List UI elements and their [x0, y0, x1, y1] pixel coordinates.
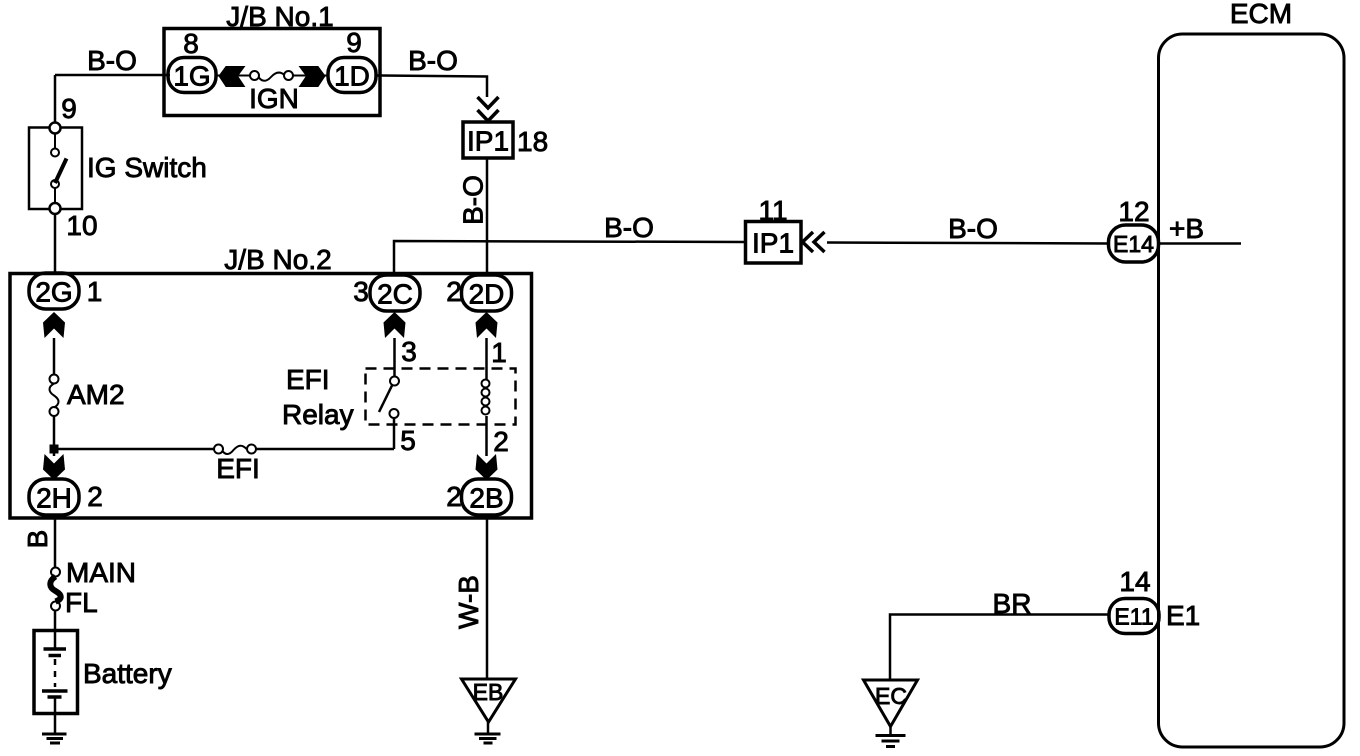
svg-text:E11: E11 [1114, 604, 1153, 630]
wire MAIN FL to battery [54, 611, 57, 650]
svg-text:+B: +B [1169, 213, 1204, 244]
wire IG switch to J/B No.2 [54, 214, 57, 273]
svg-text:B: B [22, 530, 53, 549]
arrow up under 2G [43, 312, 65, 338]
fuse IGN left arrow [219, 67, 245, 87]
wire 1D to IP1 corner [376, 76, 487, 98]
relay coil [482, 380, 490, 388]
wire AM2 to junction to 2H arrow [53, 416, 56, 456]
svg-text:14: 14 [1119, 566, 1150, 597]
svg-text:10: 10 [66, 210, 97, 241]
svg-text:W-B: W-B [453, 575, 484, 629]
arrow up under 2C [384, 312, 406, 338]
IG switch bottom terminal [50, 203, 61, 214]
svg-text:E14: E14 [1113, 231, 1154, 257]
svg-text:12: 12 [1118, 196, 1149, 227]
svg-text:EC: EC [875, 683, 907, 709]
connector 2C pin 3 [370, 275, 420, 311]
svg-text:2B: 2B [469, 483, 503, 514]
svg-text:8: 8 [183, 28, 199, 59]
fusible link MAIN FL [51, 568, 60, 577]
ground under battery [42, 733, 67, 736]
svg-text:3: 3 [353, 276, 369, 307]
wire IP1 down to 2D [486, 158, 489, 275]
svg-text:2: 2 [446, 276, 462, 307]
relay switch contact bottom [390, 409, 399, 418]
connector 2B pin 2 [462, 479, 512, 515]
svg-text:1G: 1G [173, 61, 210, 92]
wire B-O from IG switch to 1G [55, 74, 170, 77]
junction dot [50, 445, 58, 453]
svg-text:2D: 2D [469, 279, 505, 310]
relay switch blade [379, 386, 392, 413]
svg-text:1: 1 [87, 276, 103, 307]
IG switch blade [55, 159, 67, 184]
EFI relay dashed box [366, 369, 516, 425]
connector IP1 pin 11 [746, 222, 802, 264]
svg-text:9: 9 [61, 93, 77, 124]
svg-text:B-O: B-O [604, 212, 654, 243]
svg-text:IP1: IP1 [752, 228, 794, 259]
svg-text:Relay: Relay [282, 399, 354, 430]
wire 2B down to EB [486, 515, 489, 679]
svg-text:3: 3 [401, 336, 417, 367]
fuse AM2 [50, 375, 59, 384]
connector 1D pin 9 [328, 58, 376, 93]
svg-text:EFI: EFI [286, 364, 330, 395]
svg-text:2G: 2G [35, 277, 72, 308]
svg-text:B-O: B-O [948, 213, 998, 244]
svg-text:2: 2 [87, 481, 103, 512]
svg-text:J/B No.2: J/B No.2 [224, 244, 331, 275]
connector 2D pin 2 [462, 275, 512, 311]
battery box [34, 631, 78, 714]
svg-text:ECM: ECM [1230, 0, 1292, 29]
junction block J/B No.1 box [164, 29, 380, 116]
arrow up under 2D [476, 312, 498, 338]
IG switch internal wire [54, 134, 56, 149]
svg-text:1: 1 [491, 337, 507, 368]
IG switch internal wire 2 [54, 188, 56, 203]
ground triangle EC [864, 680, 918, 727]
connector 1G pin 8 [168, 58, 216, 93]
arrow down above 2H [43, 454, 65, 480]
wire main B-O line to IP1-11 [394, 241, 745, 275]
chevron arrow into IP1-11 [803, 232, 814, 252]
svg-text:Battery: Battery [83, 658, 172, 689]
relay switch contact top [390, 377, 399, 386]
battery plates [44, 647, 67, 651]
wire IG switch to top [54, 75, 57, 128]
svg-text:EB: EB [473, 679, 504, 705]
svg-text:BR: BR [993, 588, 1032, 619]
svg-text:B-O: B-O [458, 175, 489, 225]
junction block J/B No.2 box [10, 274, 532, 519]
connector E11 pin 14 [1109, 599, 1159, 634]
svg-text:FL: FL [65, 587, 98, 618]
IG switch top terminal [50, 123, 61, 134]
wire up to relay switch [393, 418, 396, 449]
wire coil to 2B arrow [485, 416, 488, 456]
fuse IGN right arrow [300, 67, 326, 87]
wire battery to ground [54, 697, 57, 733]
svg-text:5: 5 [400, 425, 416, 456]
svg-text:B-O: B-O [408, 45, 458, 76]
wire 2D arrow to coil [485, 338, 488, 380]
wire EC to E11 [890, 615, 1109, 681]
svg-text:2H: 2H [36, 483, 72, 514]
IG switch contact bottom [51, 180, 59, 188]
connector E14 pin 12 [1109, 225, 1159, 262]
svg-text:9: 9 [346, 27, 362, 58]
IG switch contact top [51, 149, 59, 157]
svg-text:IP1: IP1 [467, 126, 509, 157]
ground triangle EB [462, 679, 516, 722]
svg-text:AM2: AM2 [67, 379, 125, 410]
svg-text:IG Switch: IG Switch [87, 152, 207, 183]
wire relay to 2C arrow [393, 338, 396, 377]
svg-text:2: 2 [493, 426, 509, 457]
svg-text:2C: 2C [377, 279, 413, 310]
wire EFI fuse horizontal [54, 448, 214, 451]
svg-text:IGN: IGN [249, 83, 299, 114]
connector 2H pin 2 [29, 479, 79, 515]
chevron arrow into IP1 [478, 97, 499, 108]
svg-text:EFI: EFI [216, 453, 260, 484]
svg-text:E1: E1 [1166, 600, 1200, 631]
fuse EFI [214, 445, 223, 454]
IG Switch box [29, 128, 82, 210]
wire +B stub inside ECM [1159, 242, 1241, 245]
connector IP1 pin 18 [463, 122, 513, 158]
svg-text:B-O: B-O [87, 45, 137, 76]
svg-text:1D: 1D [334, 61, 370, 92]
wire B-O to ECM E14 [827, 243, 1109, 244]
svg-text:11: 11 [758, 195, 787, 226]
arrow down above 2B [476, 454, 498, 480]
connector 2G pin 1 [29, 273, 79, 309]
fuse IGN element [250, 71, 259, 80]
svg-text:18: 18 [517, 126, 548, 157]
svg-text:2: 2 [446, 481, 462, 512]
wire 2H down to MAIN FL [54, 515, 57, 568]
ground symbol EB [487, 722, 490, 733]
fuse IGN wire [216, 75, 251, 77]
svg-text:MAIN: MAIN [66, 557, 136, 588]
ECM box [1159, 34, 1345, 747]
ground symbol EC [889, 727, 892, 735]
wire 2G to AM2 [53, 338, 56, 375]
